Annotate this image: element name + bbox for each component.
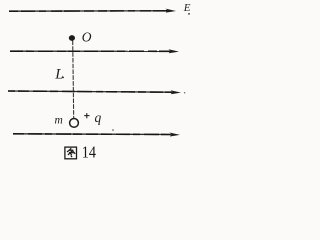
svg-text:O: O <box>82 29 92 44</box>
svg-text:m: m <box>55 115 63 127</box>
svg-text:q: q <box>95 110 102 125</box>
svg-text:E: E <box>183 2 191 14</box>
svg-text:L: L <box>54 67 63 83</box>
svg-text:14: 14 <box>82 143 96 162</box>
